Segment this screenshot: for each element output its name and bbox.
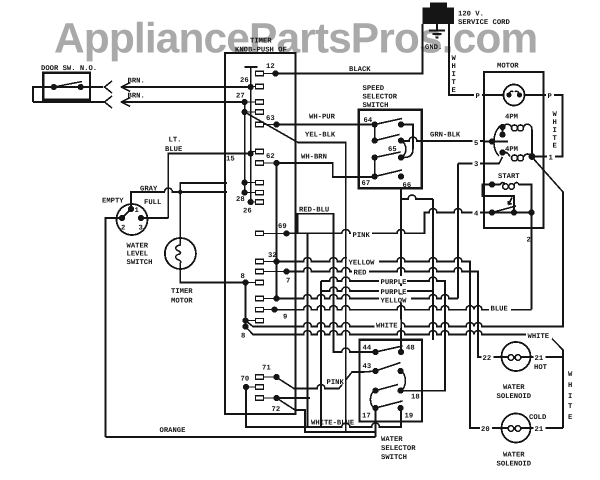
wire water selector C bracket 43-18 <box>401 371 406 391</box>
svg-text:SPEED: SPEED <box>363 85 385 93</box>
speed switch C bracket row2-65 <box>401 141 406 158</box>
wire BLUE: timer 9 to motor 2 (bumps) <box>275 306 532 310</box>
svg-text:SOLENOID: SOLENOID <box>497 393 532 401</box>
svg-text:LT.: LT. <box>169 137 182 145</box>
wire diagonal junction 1 handled above; motor 5 entry <box>484 141 492 143</box>
motor protector right wire <box>525 94 544 96</box>
svg-text:SERVICE CORD: SERVICE CORD <box>458 19 510 27</box>
label YELLOW 32 <box>347 257 379 265</box>
motor start switch loop <box>483 185 515 213</box>
switch blade speed row2 <box>375 135 400 141</box>
wire WH-PUR: timer 63 to speed switch 64 <box>277 124 375 126</box>
wire timer 70 down to water selector 19 (bumps) <box>246 387 401 427</box>
svg-text:WHITE: WHITE <box>528 333 550 341</box>
timer motor circle <box>165 238 196 269</box>
wire motor P right wrap to junction 1 <box>532 95 563 157</box>
label PURPLE 2 <box>379 286 407 294</box>
svg-text:4: 4 <box>474 211 479 219</box>
svg-text:START: START <box>498 173 520 181</box>
wire PINK: timer 69 to motor 4 (bumps) <box>287 209 485 234</box>
svg-text:2: 2 <box>121 225 125 233</box>
svg-text:EMPTY: EMPTY <box>102 198 124 206</box>
svg-text:TIMER: TIMER <box>250 38 272 46</box>
timer 62 inner vertical to 32/yellow column <box>276 163 278 299</box>
svg-text:H: H <box>452 63 456 71</box>
svg-text:BLUE: BLUE <box>165 146 183 154</box>
svg-text:WH-BRN: WH-BRN <box>301 154 327 162</box>
water selector switch box <box>360 340 423 422</box>
label 20 <box>480 424 492 433</box>
motor centrifugal actuator arc <box>494 126 500 156</box>
switch blade water selector 44 <box>376 346 403 352</box>
svg-text:5: 5 <box>474 140 478 148</box>
switch blade water selector 43 <box>376 363 401 372</box>
svg-text:RED-BLU: RED-BLU <box>299 207 329 215</box>
wire PURPLE 2 from speed 66 chain (bumps) <box>321 287 433 291</box>
timer contact stubs <box>245 74 287 399</box>
svg-text:BRN.: BRN. <box>128 93 145 101</box>
motor protector hooks <box>509 91 520 94</box>
svg-text:BLUE: BLUE <box>491 306 509 314</box>
svg-text:COLD: COLD <box>529 414 547 422</box>
svg-text:P: P <box>548 93 553 101</box>
svg-text:65: 65 <box>388 146 397 154</box>
switch blade speed 64 <box>375 119 402 125</box>
svg-text:48: 48 <box>406 345 415 353</box>
svg-text:BRN.: BRN. <box>128 78 145 86</box>
wire HOT solenoid 21 link <box>531 356 564 358</box>
svg-text:MOTOR: MOTOR <box>171 298 193 306</box>
svg-text:3: 3 <box>474 161 478 169</box>
speed switch inner left pair verticals <box>374 125 376 177</box>
wire WHITE lower: timer 8 to solenoids 21 (bumps) <box>246 327 564 428</box>
water level switch blade <box>122 209 131 218</box>
motor bottom link row <box>492 212 532 214</box>
svg-text:YELLOW: YELLOW <box>381 298 408 306</box>
svg-text:18: 18 <box>411 394 420 402</box>
svg-text:HOT: HOT <box>534 364 548 372</box>
wire COLD solenoid left entry <box>470 427 502 429</box>
svg-text:19: 19 <box>405 413 414 421</box>
service cord plug body <box>423 8 455 25</box>
motor protector circle <box>504 85 525 106</box>
ground lead from plug <box>436 24 438 30</box>
label PINK 43 <box>325 377 345 385</box>
motor box <box>484 72 544 228</box>
svg-text:8: 8 <box>241 273 245 281</box>
svg-text:3: 3 <box>139 225 143 233</box>
wire 433 drop to water selector box top <box>432 199 434 340</box>
svg-text:ORANGE: ORANGE <box>160 427 187 435</box>
timer inner common T-bar <box>245 67 258 87</box>
label 22 <box>482 353 494 362</box>
svg-text:I: I <box>553 127 557 135</box>
label 21 hot <box>534 353 546 362</box>
wire door-switch left U loop <box>33 87 44 102</box>
wire FULL: water level 3 to LT.BLUE <box>141 217 168 219</box>
svg-text:66: 66 <box>403 182 412 190</box>
svg-text:MOTOR: MOTOR <box>497 63 519 71</box>
timer 15 inner stub <box>227 153 251 155</box>
connector chevron upper <box>105 81 113 93</box>
svg-text:E: E <box>553 143 558 151</box>
junction dots <box>51 84 57 90</box>
svg-text:T: T <box>568 403 573 411</box>
wire WHITE-BLUE: timer 72 to water selector 17 <box>277 398 376 432</box>
svg-text:64: 64 <box>364 117 373 125</box>
svg-text:SELECTOR: SELECTOR <box>381 445 416 453</box>
svg-text:4PM: 4PM <box>505 146 518 154</box>
svg-text:WATER: WATER <box>503 384 525 392</box>
speed switch inner right link 64 to 65 <box>401 125 413 158</box>
svg-text:62: 62 <box>266 153 275 161</box>
switch blade water selector 17-19 <box>376 401 403 408</box>
svg-text:26: 26 <box>243 208 252 216</box>
connector arrowhead lower <box>122 98 131 107</box>
svg-text:WHITE-BLUE: WHITE-BLUE <box>311 420 355 428</box>
switch blade speed 65 <box>375 152 401 158</box>
svg-text:32: 32 <box>268 252 277 260</box>
timer contact rectangles <box>256 71 264 75</box>
svg-text:43: 43 <box>363 363 372 371</box>
svg-text:SWITCH: SWITCH <box>363 102 389 110</box>
motor START coil <box>492 183 506 185</box>
svg-text:H: H <box>568 382 572 390</box>
svg-text:DOOR SW. N.O.: DOOR SW. N.O. <box>41 65 97 73</box>
HOT solenoid coil <box>502 356 508 358</box>
wire speed 66 tee right (bump) <box>401 195 433 199</box>
wire LT.BLUE: timer 15 left and down <box>168 154 227 219</box>
svg-text:21: 21 <box>535 355 544 363</box>
wire timer 71 to water selector 43 PINK (bumps) <box>277 371 376 389</box>
wire YELLOW 3: timer to motor 3 riser (bumps) <box>277 295 459 299</box>
label P left <box>474 91 482 100</box>
motor protector left wire <box>484 94 504 96</box>
svg-text:YEL-BLK: YEL-BLK <box>305 132 336 140</box>
svg-text:26: 26 <box>240 77 249 85</box>
label RED 7 <box>352 267 369 275</box>
wire door-switch through contact row <box>44 86 103 88</box>
svg-text:BLACK: BLACK <box>349 66 371 74</box>
svg-text:9: 9 <box>283 314 287 322</box>
timer box <box>225 53 296 414</box>
wire WHITE upper: timer 8 to motor junction 1 (bumps, diagonal up) <box>246 157 564 327</box>
wire GRAY: water level 1 to timer (bump over LT.BLUE) <box>131 188 227 209</box>
svg-text:P: P <box>476 93 481 101</box>
door switch box <box>43 73 90 100</box>
svg-text:22: 22 <box>483 355 492 363</box>
svg-text:8: 8 <box>241 333 245 341</box>
COLD solenoid coil <box>502 427 508 429</box>
svg-text:7: 7 <box>286 278 290 286</box>
svg-text:I: I <box>452 71 456 79</box>
svg-text:GRAY: GRAY <box>140 186 158 194</box>
svg-text:W: W <box>553 111 558 119</box>
switch blade water selector row3 <box>376 385 399 391</box>
svg-text:T: T <box>452 79 457 87</box>
wire motor 3 entry <box>484 157 503 164</box>
label 21 cold <box>534 424 546 433</box>
svg-text:28: 28 <box>236 196 245 204</box>
svg-text:PURPLE: PURPLE <box>381 279 408 287</box>
ground symbol bars <box>429 31 445 38</box>
svg-text:63: 63 <box>266 115 275 123</box>
wire YELLOW: timer 32 to cold solenoid 20 (bumps) <box>277 258 502 429</box>
svg-text:120 V.: 120 V. <box>458 11 484 19</box>
wire speed 66 down to water selector 48 <box>400 188 402 352</box>
svg-text:W: W <box>452 55 457 63</box>
svg-text:GND.: GND. <box>425 44 442 52</box>
speed selector switch box <box>359 110 422 189</box>
timer inner 26-column <box>250 87 252 202</box>
water level switch circle <box>117 204 148 235</box>
svg-text:27: 27 <box>236 93 245 101</box>
wire WH-BRN: timer 62 to speed switch 67 <box>277 163 375 177</box>
timer inner 27-column <box>244 102 246 193</box>
svg-text:20: 20 <box>481 426 490 434</box>
motor switch blade 5 <box>492 141 508 143</box>
svg-text:72: 72 <box>272 406 281 414</box>
motor start switch arrow <box>508 198 512 205</box>
wire RED: timer 7 to hot solenoid 22 (bumps) <box>287 268 502 358</box>
wire vertical purple junction down to 70 run <box>320 281 322 427</box>
label BLUE <box>489 303 511 312</box>
wire timer 72 stub <box>277 397 311 399</box>
COLD water solenoid circle <box>502 414 531 443</box>
switch blade speed 67 <box>375 170 402 177</box>
svg-text:H: H <box>553 119 557 127</box>
wire BRN upper: connector to timer 26 <box>122 86 251 88</box>
wire gray branch up to second timer contact <box>180 183 227 192</box>
wire gray junction down to timer motor <box>179 192 181 238</box>
svg-text:I: I <box>568 393 572 401</box>
wire BRN lower: connector to timer 27 <box>33 101 245 103</box>
label 1 motor <box>547 152 555 161</box>
label PURPLE 1 <box>379 276 407 284</box>
door switch blade <box>54 82 82 88</box>
svg-text:WATER: WATER <box>381 436 403 444</box>
timer motor coil symbol <box>54 82 520 270</box>
label 4 <box>473 208 481 217</box>
svg-text:SOLENOID: SOLENOID <box>497 461 532 469</box>
svg-text:21: 21 <box>535 426 544 434</box>
svg-text:WATER: WATER <box>127 243 149 251</box>
motor switch blade 4 <box>492 206 516 213</box>
svg-text:SELECTOR: SELECTOR <box>363 94 398 102</box>
svg-text:71: 71 <box>262 365 271 373</box>
svg-text:12: 12 <box>266 63 275 71</box>
wire YEL-BLK: timer diagonal, right, down to white-blue <box>245 112 346 432</box>
svg-text:FULL: FULL <box>144 199 161 207</box>
svg-text:SWITCH: SWITCH <box>381 454 407 462</box>
wire timer motor bottom to timer 8 <box>180 269 245 283</box>
wire RED-BLU: timer 69 up over, down to water selector 44 (bump at yel-blk) <box>298 214 376 352</box>
svg-text:44: 44 <box>363 345 372 353</box>
svg-text:4PM: 4PM <box>505 114 518 122</box>
label WHITE mid <box>375 320 401 329</box>
motor switch stack stub <box>502 127 504 135</box>
svg-text:TIMER: TIMER <box>171 288 193 296</box>
svg-text:70: 70 <box>241 376 250 384</box>
wire HOT solenoid left entry <box>478 356 502 358</box>
motor 6PM coil upper <box>503 124 512 127</box>
svg-text:WHITE: WHITE <box>376 323 398 331</box>
wire vertical from pink down to timer 72 run <box>307 233 309 427</box>
label P right <box>546 91 554 100</box>
svg-text:PINK: PINK <box>327 379 345 387</box>
wire timer 8 inner vertical <box>245 283 247 327</box>
svg-text:GRN-BLK: GRN-BLK <box>430 132 461 140</box>
svg-text:W: W <box>568 371 573 379</box>
wire EMPTY: water level 2 left, down to orange run <box>106 218 123 437</box>
wire COLD solenoid 21 link <box>531 427 564 429</box>
motor 4PM coil lower <box>503 152 511 156</box>
label PINK 69 <box>351 230 372 238</box>
wire WHITE service cord to motor P <box>449 24 484 95</box>
label 3 <box>473 158 481 167</box>
HOT water solenoid circle <box>502 342 531 371</box>
svg-text:WH-PUR: WH-PUR <box>309 114 336 122</box>
svg-text:E: E <box>568 414 573 422</box>
svg-text:69: 69 <box>278 223 287 231</box>
wire motor 2 drop <box>531 213 533 310</box>
svg-text:YELLOW: YELLOW <box>349 260 376 268</box>
label 5 <box>473 138 481 147</box>
svg-text:E: E <box>452 87 457 95</box>
svg-text:1: 1 <box>549 155 554 163</box>
svg-text:2: 2 <box>527 237 531 245</box>
label WHITE right <box>526 331 552 340</box>
svg-text:17: 17 <box>362 413 371 421</box>
svg-text:1: 1 <box>135 207 140 215</box>
connector chevron lower <box>105 96 113 108</box>
svg-text:KNOB-PUSH OF: KNOB-PUSH OF <box>235 47 287 55</box>
wire water selector inner L row3 to 17 <box>370 391 374 408</box>
label YELLOW 3 <box>379 295 411 303</box>
svg-text:67: 67 <box>362 180 371 188</box>
connector arrowhead upper <box>122 83 131 92</box>
service cord plug top nub <box>430 3 447 9</box>
svg-text:15: 15 <box>226 156 235 164</box>
wire motor 4 entry <box>484 212 492 214</box>
wire GRN-BLK: speed switch to motor 5 (bump) <box>401 137 484 141</box>
svg-text:PINK: PINK <box>353 232 371 240</box>
wire PURPLE 1 to water selector 18 (bumps) <box>321 277 445 391</box>
wire ORANGE bottom run <box>106 436 376 438</box>
wire BLACK: timer 12 to service cord <box>276 24 423 74</box>
svg-text:SWITCH: SWITCH <box>127 259 153 267</box>
wire water selector 17 drop to orange <box>375 408 377 437</box>
svg-text:WATER: WATER <box>503 452 525 460</box>
wire motor 3 riser and entry <box>458 164 484 299</box>
svg-text:LEVEL: LEVEL <box>127 251 149 259</box>
svg-text:RED: RED <box>354 270 368 278</box>
